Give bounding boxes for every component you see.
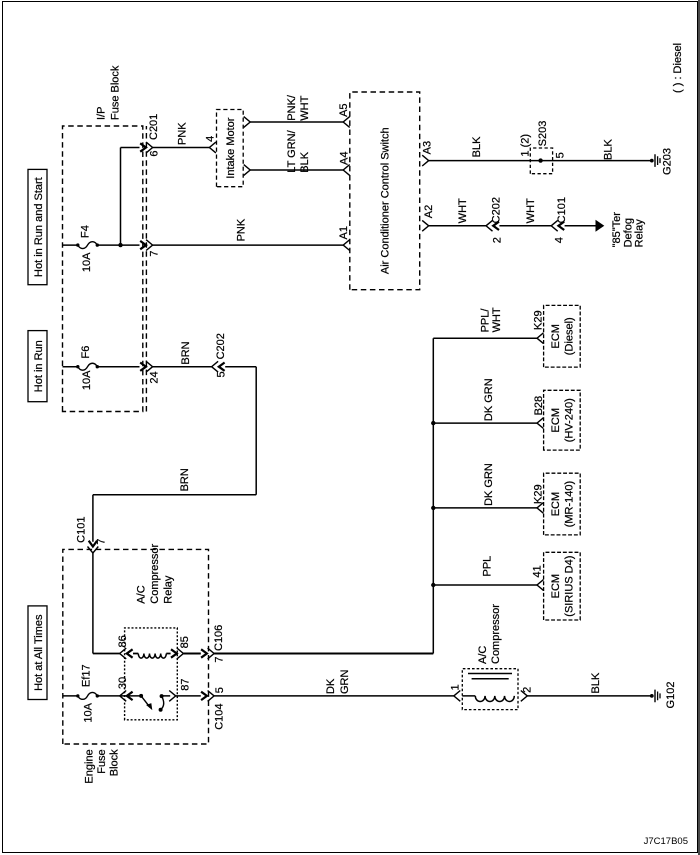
svg-text:B28: B28 [533,396,545,416]
svg-text:5: 5 [214,687,226,693]
svg-text:7: 7 [148,251,160,257]
svg-text:"85"Ter: "85"Ter [611,212,623,248]
svg-text:PNK/: PNK/ [286,94,298,121]
svg-text:BLK: BLK [471,136,483,157]
svg-text:WHT: WHT [457,198,469,223]
svg-text:(SIRIUS D4): (SIRIUS D4) [564,556,576,617]
svg-text:WHT: WHT [491,307,503,332]
svg-text:Fuse: Fuse [96,749,108,773]
svg-text:10A: 10A [83,702,95,722]
svg-text:I/P: I/P [96,107,108,120]
svg-text:DK: DK [325,678,337,694]
svg-text:C104: C104 [213,704,225,730]
svg-text:A3: A3 [421,141,433,154]
svg-text:K29: K29 [533,484,545,504]
svg-text:GRN: GRN [339,670,351,695]
svg-text:LT GRN/: LT GRN/ [286,129,298,172]
svg-text:C201: C201 [148,114,160,140]
svg-text:4: 4 [553,237,565,243]
svg-text:PPL: PPL [482,556,494,577]
svg-text:Air Conditioner Control Switch: Air Conditioner Control Switch [380,127,392,274]
svg-text:24: 24 [149,371,161,383]
svg-text:K29: K29 [532,310,544,330]
svg-text:Block: Block [109,749,121,776]
svg-text:A/C: A/C [136,585,148,603]
svg-text:87: 87 [179,678,191,690]
svg-text:PPL/: PPL/ [479,308,491,333]
svg-text:10A: 10A [81,252,93,272]
svg-text:ECM: ECM [550,324,562,348]
svg-text:BRN: BRN [179,468,191,491]
svg-text:C202: C202 [215,333,227,359]
svg-text:Fuse Block: Fuse Block [110,65,122,120]
svg-text:Hot at All Times: Hot at All Times [33,614,45,691]
svg-text:2: 2 [522,687,534,693]
svg-text:C101: C101 [75,517,87,543]
svg-text:ECM: ECM [550,408,562,432]
svg-text:A5: A5 [338,103,350,116]
svg-text:A2: A2 [423,205,435,218]
svg-text:6: 6 [148,151,160,157]
svg-text:(MR-140): (MR-140) [564,481,576,527]
svg-text:5: 5 [215,371,227,377]
svg-text:C106: C106 [213,625,225,651]
svg-text:ECM: ECM [550,574,562,598]
svg-text:Relay: Relay [162,575,174,604]
svg-text:DK GRN: DK GRN [483,463,495,506]
svg-text:( ) : Diesel: ( ) : Diesel [672,43,684,93]
svg-text:A/C: A/C [477,646,489,664]
svg-text:2: 2 [492,237,504,243]
svg-text:F4: F4 [79,225,91,238]
svg-text:86: 86 [117,635,129,647]
svg-text:BLK: BLK [590,672,602,693]
svg-text:F6: F6 [80,346,92,359]
svg-text:Relay: Relay [633,219,645,248]
svg-text:41: 41 [532,565,544,577]
svg-text:Ef17: Ef17 [80,664,92,687]
svg-text:Compressor: Compressor [490,604,502,664]
svg-text:WHT: WHT [525,198,537,223]
svg-text:5: 5 [555,152,567,158]
svg-text:Engine: Engine [84,749,96,783]
svg-text:S203: S203 [537,121,549,147]
svg-text:Hot in Run: Hot in Run [33,340,45,392]
svg-text:85: 85 [179,636,191,648]
svg-text:WHT: WHT [299,95,311,120]
svg-text:(HV-240): (HV-240) [564,398,576,442]
svg-text:30: 30 [117,677,129,689]
svg-text:10A: 10A [81,370,93,390]
svg-text:PNK: PNK [177,122,189,145]
svg-text:Intake Motor: Intake Motor [225,117,237,178]
svg-text:A4: A4 [339,152,351,165]
svg-text:(Diesel): (Diesel) [564,317,576,355]
svg-text:1: 1 [449,684,461,690]
svg-text:4: 4 [205,136,217,142]
svg-text:BLK: BLK [602,139,614,160]
svg-text:7: 7 [213,657,225,663]
svg-text:G102: G102 [665,682,677,709]
svg-text:G203: G203 [661,148,673,175]
svg-text:BRN: BRN [180,341,192,364]
svg-text:Compressor: Compressor [149,543,161,603]
svg-text:ECM: ECM [550,492,562,516]
svg-text:1 (2): 1 (2) [520,134,532,157]
svg-text:C101: C101 [556,197,568,223]
svg-text:DK GRN: DK GRN [483,378,495,421]
svg-text:7: 7 [96,538,108,544]
svg-text:C202: C202 [491,197,503,223]
svg-text:Hot in Run and Start: Hot in Run and Start [33,177,45,277]
svg-text:PNK: PNK [235,218,247,241]
svg-text:BLK: BLK [299,151,311,172]
svg-text:A1: A1 [338,226,350,239]
